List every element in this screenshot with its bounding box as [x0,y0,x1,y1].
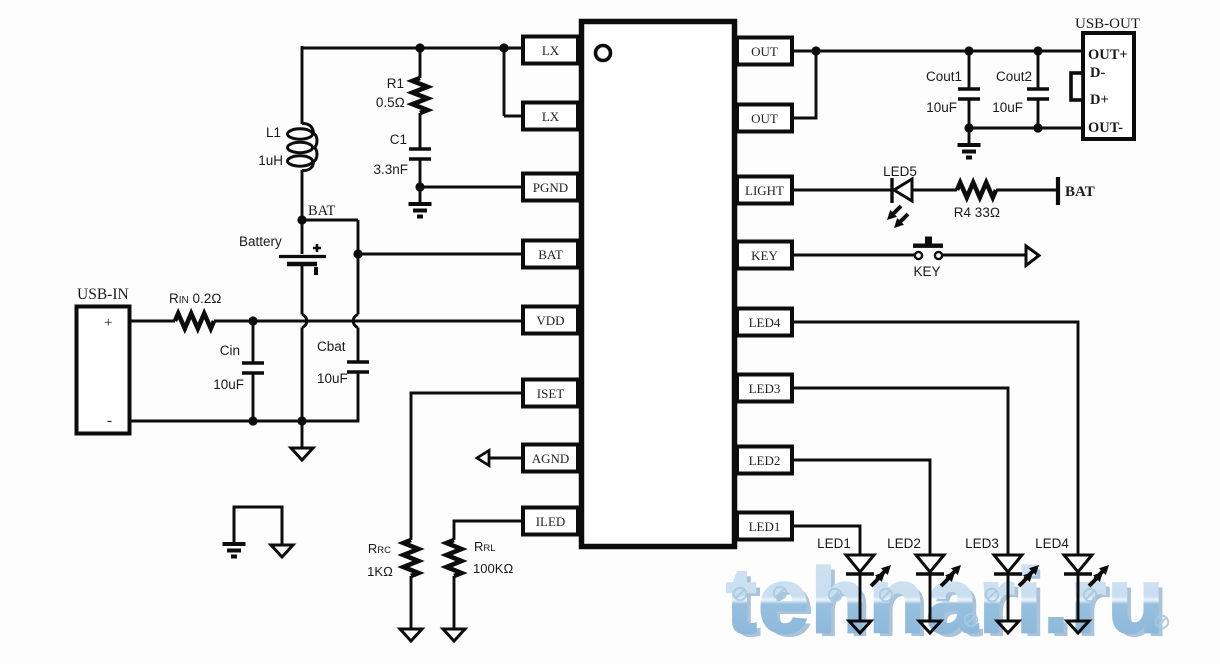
resistor RRC [404,540,419,576]
wire L1 top vertical [301,46,304,124]
pin BAT (left, y=254) [523,241,578,268]
wire switch to arrow [942,254,1026,257]
wire USB-IN minus bottom rail [129,420,359,423]
pin LED3 (right, y=388) [737,375,792,402]
capacitor Cout1 [964,46,973,55]
wire RRL to ground [453,576,456,629]
svg-text:+: + [104,315,112,331]
svg-text:ILED: ILED [536,514,566,529]
wire top rail LX [302,47,523,50]
watermark tehnari.ru [726,550,1170,656]
wire C1 to PGND node [419,159,422,202]
wire LX2 branch [499,43,508,52]
wire PGND [420,186,523,189]
resistor RIN [175,314,214,329]
resistor RRL [447,540,462,576]
wire LED2 to ground [929,574,932,621]
wire R1 to C1 [419,113,422,148]
pin LX (left, y=50) [523,37,578,64]
pin LIGHT (right, y=190) [737,177,792,204]
pin KEY (right, y=255) [737,242,792,269]
connector USB-IN box [77,307,130,434]
IC pin-1 marker circle [596,46,611,61]
wire LED3 pin to diode [792,388,1008,555]
capacitor Cbat [357,328,360,362]
ground arrow below bottom rail [301,421,304,448]
wire RIN to VDD pin [214,320,523,323]
svg-text:0.5Ω: 0.5Ω [376,95,405,110]
svg-text:USB-IN: USB-IN [77,286,129,303]
svg-text:100KΩ: 100KΩ [473,561,513,576]
svg-text:LED2: LED2 [749,453,781,468]
node battery/bottom-rail dot [297,416,306,425]
ground arrow LED2 [919,621,941,633]
wire ILED [454,521,523,540]
wire L1 bottom to BAT node [301,170,304,221]
svg-text:LX: LX [542,109,560,124]
svg-text:LED3: LED3 [965,536,999,551]
pin LX (left, y=116) [523,103,578,130]
LED LED1 [846,555,874,572]
capacitor C1 [409,147,431,151]
wire OUT- bottom rail [969,127,1083,130]
svg-text:1KΩ: 1KΩ [367,564,393,579]
wire LED4 to ground [1077,574,1080,621]
BAT terminal bar [1056,177,1060,205]
svg-text:LED4: LED4 [1035,536,1069,551]
wire KEY pin to switch [792,254,914,257]
svg-text:LIGHT: LIGHT [745,183,784,198]
wire LED4 pin to diode [792,322,1078,555]
resistor R1 [413,78,428,113]
wire LED5 to R4 [912,189,957,192]
svg-text:LX: LX [542,43,560,58]
wire LED3 to ground [1007,574,1010,621]
svg-text:Battery: Battery [239,234,282,249]
capacitor Cout2 [1033,46,1042,55]
op IC U1 body [582,22,735,547]
ground arrow LED4 [1067,621,1089,633]
svg-text:tehnari.ru: tehnari.ru [726,550,1165,652]
svg-text:Cin: Cin [220,343,240,358]
svg-text:AGND: AGND [532,451,570,466]
wire BAT node to battery [301,220,304,254]
svg-text:OUT+: OUT+ [1088,47,1128,63]
wire RRC to ground [410,576,413,629]
wire LED1 to ground [859,574,862,621]
svg-text:RIN 0.2Ω: RIN 0.2Ω [169,291,222,306]
svg-text:LED2: LED2 [887,536,921,551]
svg-text:KEY: KEY [751,248,778,263]
wire battery to bottom rail (hop over VDD wire) [301,264,304,315]
svg-text:D-: D- [1090,65,1105,81]
AGND arrow head [477,451,489,466]
wire ISET [411,393,523,540]
svg-text:OUT: OUT [751,44,778,59]
legend: ground equivalence bracket [234,507,282,545]
ground below Cout1 [968,128,971,144]
svg-text:LED4: LED4 [749,315,781,330]
wire OUT2 up-link [792,51,816,118]
LED LED2 [916,555,944,572]
wire R4 to BAT terminal [996,189,1058,192]
svg-text:LED1: LED1 [817,536,851,551]
svg-text:R1: R1 [387,76,404,91]
capacitor Cin [252,321,255,362]
ground below C1 [409,202,432,206]
battery symbol [279,255,326,258]
svg-text:1uH: 1uH [258,153,283,168]
wire Cbat to bottom rail [357,372,360,422]
ground arrow LED1 [849,621,871,633]
svg-text:BAT: BAT [308,203,336,219]
pin LED4 (right, y=322) [737,309,792,336]
connector USB-OUT box [1083,33,1134,139]
pin VDD (left, y=320) [523,307,578,334]
wire AGND with left arrow [489,457,523,460]
battery minus tick [314,267,318,275]
svg-text:Cout1: Cout1 [926,69,962,84]
wire BAT node right [302,219,358,222]
svg-text:-: - [107,413,112,429]
pin OUT (right, y=118) [737,105,792,132]
svg-text:USB-OUT: USB-OUT [1075,16,1140,32]
svg-text:LED1: LED1 [749,519,781,534]
inductor L1 [302,123,317,170]
LED5 diode [890,178,893,203]
node BAT dot [297,215,306,224]
USB-OUT notch [1071,73,1083,100]
pin AGND (left, y=458) [523,445,578,472]
svg-text:10uF: 10uF [317,371,348,386]
KEY connector arrow [1026,246,1039,266]
svg-text:LED3: LED3 [749,381,781,396]
svg-text:R4 33Ω: R4 33Ω [954,205,1000,220]
wire down to BAT pin junction (hop over VDD wire) [357,220,360,315]
pin PGND (left, y=187) [523,174,578,201]
svg-text:3.3nF: 3.3nF [373,162,408,177]
pin LED1 (right, y=526) [737,513,792,540]
wire LIGHT to LED5 [792,189,892,192]
svg-text:BAT: BAT [538,247,563,262]
LED LED4 [1064,555,1092,572]
pin OUT (right, y=51) [737,38,792,65]
wire LED1 pin to diode [792,526,860,555]
resistor R4 [957,183,996,198]
svg-text:PGND: PGND [533,180,568,195]
wire USB-IN plus to RIN [129,320,175,323]
svg-text:VDD: VDD [536,313,564,328]
svg-text:OUT-: OUT- [1088,120,1123,136]
wire to BAT pin [358,253,523,256]
svg-text:Cout2: Cout2 [996,69,1032,84]
LED LED3 [994,555,1022,572]
svg-text:BAT: BAT [1065,184,1095,200]
svg-text:10uF: 10uF [926,100,957,115]
wire LED2 pin to diode [792,460,930,555]
svg-text:10uF: 10uF [213,377,244,392]
switch KEY [915,252,922,259]
svg-text:KEY: KEY [913,264,940,279]
wire OUT1 rail [792,50,1083,53]
battery plus sign [313,244,321,252]
svg-text:OUT: OUT [751,111,778,126]
svg-text:10uF: 10uF [992,100,1023,115]
svg-text:LED5: LED5 [883,164,917,179]
wire R1 top stub [419,48,422,78]
svg-text:C1: C1 [390,132,407,147]
ground arrow legend [271,545,293,557]
pin LED2 (right, y=460) [737,447,792,474]
ground 3-bar legend [223,542,246,546]
svg-text:Cbat: Cbat [317,339,346,354]
svg-text:L1: L1 [266,125,281,140]
pin ILED (left, y=521) [523,508,578,535]
svg-text:D+: D+ [1090,92,1109,108]
svg-text:ISET: ISET [537,386,565,401]
ground arrow LED3 [997,621,1019,633]
pin ISET (left, y=393) [523,380,578,407]
